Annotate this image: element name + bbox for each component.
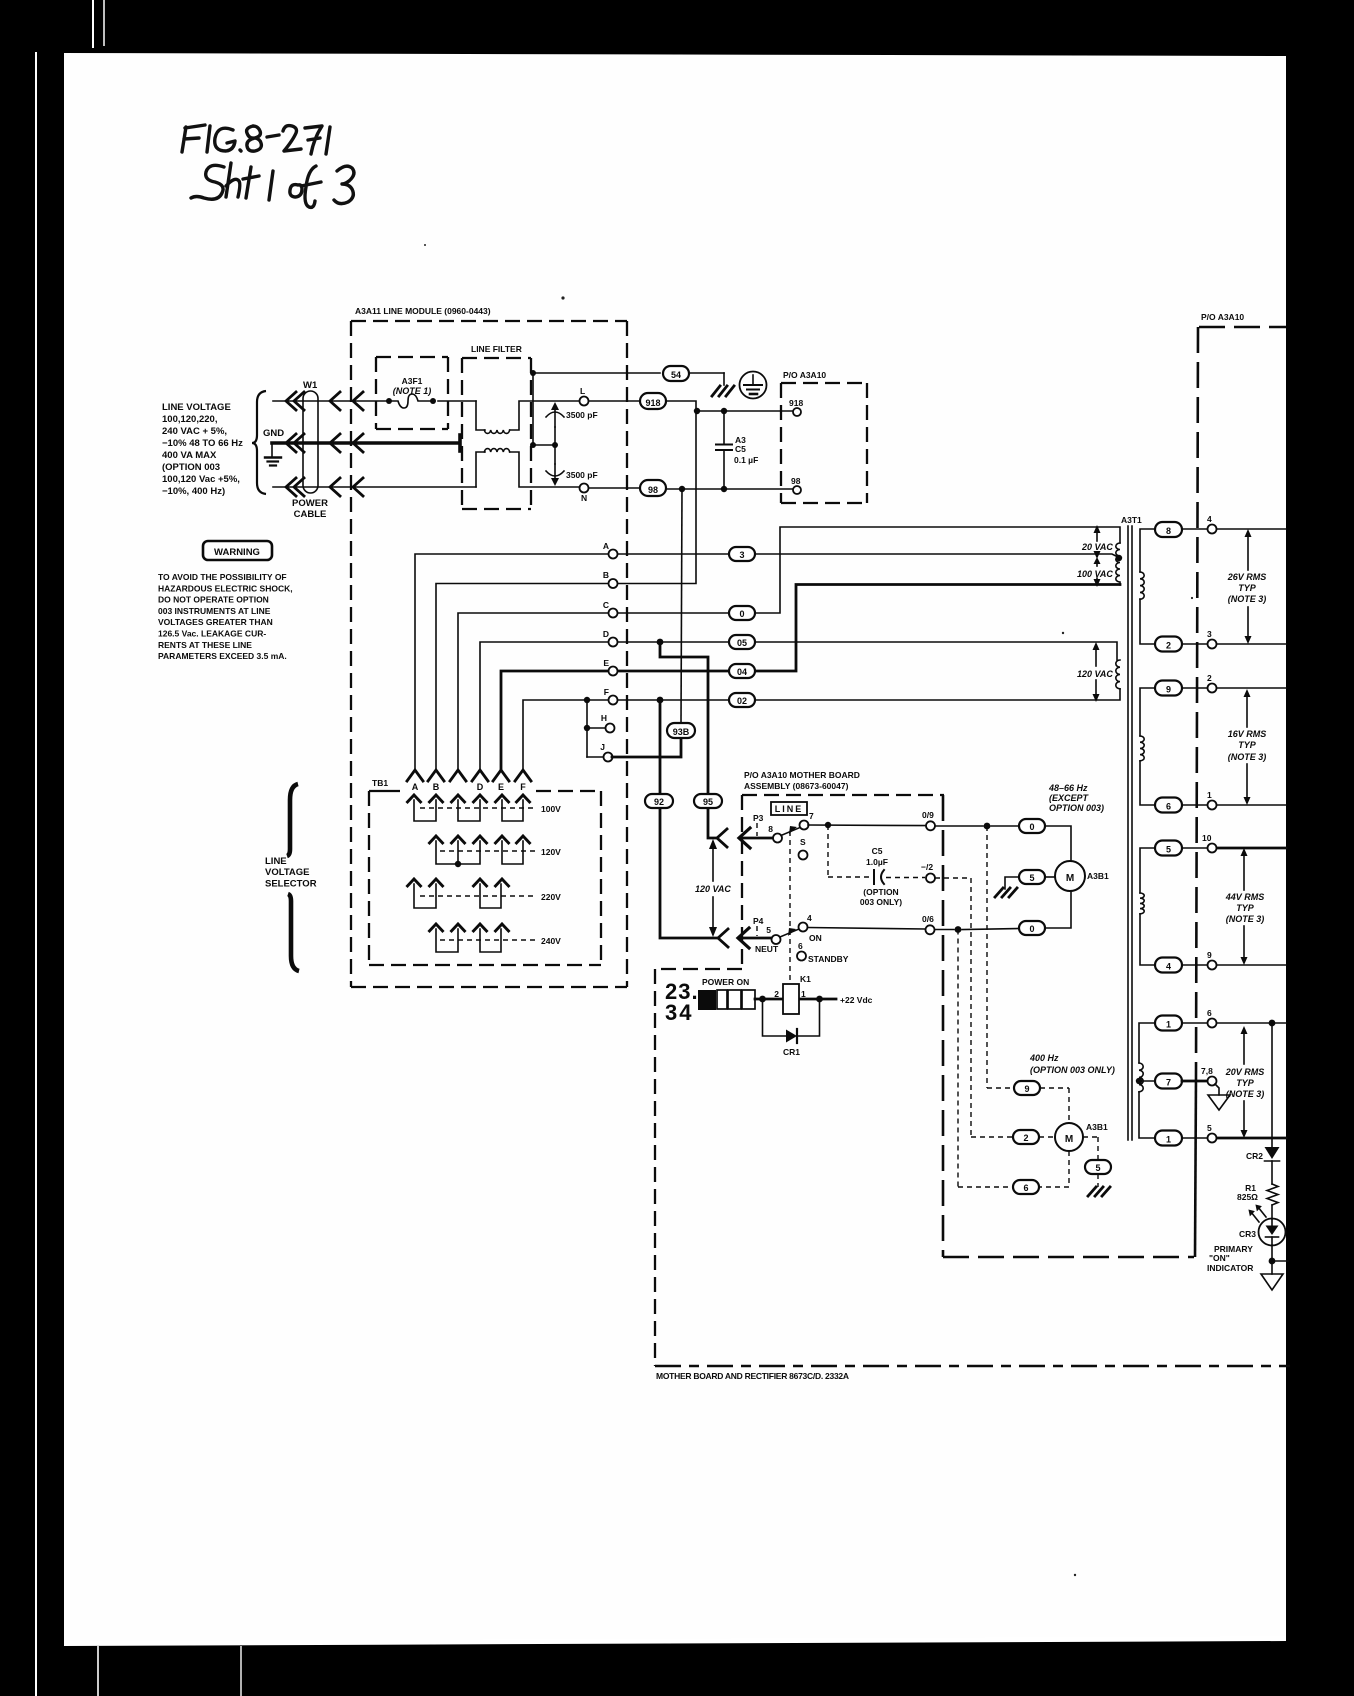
svg-text:NEUT: NEUT <box>755 944 779 954</box>
dashed -/2 drop to 400Hz motor <box>935 878 1013 1137</box>
svg-text:A3B1: A3B1 <box>1086 1122 1108 1132</box>
oval 5 row <box>1155 841 1182 856</box>
svg-text:1.0µF: 1.0µF <box>866 857 888 867</box>
secondary winding 9-6 <box>1140 688 1155 805</box>
svg-text:TYP: TYP <box>1238 583 1257 593</box>
44V arrow <box>1243 853 1245 959</box>
48-66 Hz note <box>1048 783 1104 813</box>
svg-text:126.5 Vac. LEAKAGE CUR-: 126.5 Vac. LEAKAGE CUR- <box>158 629 266 639</box>
protective earth circle symbol <box>740 372 767 399</box>
svg-text:M: M <box>1066 873 1074 884</box>
svg-text:100V: 100V <box>541 804 561 814</box>
svg-text:5: 5 <box>1207 1123 1212 1133</box>
wire switch to K1 <box>755 998 836 1001</box>
svg-text:1: 1 <box>1166 1135 1171 1145</box>
svg-text:LINE FILTER: LINE FILTER <box>471 344 522 354</box>
svg-text:C5: C5 <box>735 444 746 454</box>
svg-text:TB1: TB1 <box>372 778 388 788</box>
svg-text:H: H <box>601 713 607 723</box>
400 Hz note <box>1029 1053 1115 1075</box>
oval 93B <box>667 723 695 738</box>
oval 6 row <box>1155 798 1182 813</box>
220V jumpers <box>414 884 501 908</box>
oval 5 <box>1019 870 1045 884</box>
26V RMS note <box>1227 572 1267 604</box>
chassis ground 48-66Hz <box>995 888 1017 897</box>
dashed 0/9 drop to 400Hz motor <box>987 826 1013 1088</box>
220V leader <box>420 895 536 897</box>
oval 02 <box>729 693 755 707</box>
line voltage selector label <box>265 856 317 890</box>
WARNING box <box>203 541 272 560</box>
svg-text:6: 6 <box>1023 1183 1028 1193</box>
switch S1 contact 8 <box>773 834 782 843</box>
svg-text:HAZARDOUS ELECTRIC SHOCK,: HAZARDOUS ELECTRIC SHOCK, <box>158 583 293 593</box>
oval 2 <box>1013 1130 1039 1144</box>
svg-text:E: E <box>498 782 504 792</box>
warning paragraph <box>158 572 293 661</box>
svg-text:MOTHER BOARD AND RECTIFIER 86: MOTHER BOARD AND RECTIFIER 8673C/D. 2332… <box>656 1371 849 1381</box>
svg-text:PARAMETERS EXCEED 3.5 mA.: PARAMETERS EXCEED 3.5 mA. <box>158 651 287 661</box>
oval 1 row <box>1155 1016 1182 1031</box>
svg-text:CR2: CR2 <box>1246 1151 1263 1161</box>
svg-text:LINE: LINE <box>265 856 287 867</box>
handwritten figure title FIG.8-271 Sht 1 of 3 <box>182 125 354 207</box>
svg-text:+22 Vdc: +22 Vdc <box>840 995 873 1005</box>
switch S1 contact 7 <box>800 821 809 830</box>
svg-text:44V RMS: 44V RMS <box>1225 892 1265 902</box>
wire row E <box>501 585 1120 770</box>
svg-text:05: 05 <box>737 638 747 648</box>
20V RMS note <box>1225 1067 1265 1099</box>
svg-text:2: 2 <box>1023 1133 1028 1143</box>
wire 54 row and oval 54 <box>663 366 689 381</box>
relay K1 coil <box>783 984 799 1014</box>
svg-text:GND: GND <box>263 428 284 439</box>
svg-text:D: D <box>477 782 484 792</box>
240V jumpers <box>436 929 501 952</box>
oval 5 400Hz <box>1085 1160 1111 1174</box>
120V jumpers <box>436 841 523 864</box>
oval 2 row <box>1155 637 1182 652</box>
wire F H J jumper <box>587 700 606 757</box>
fan motor A3B1 <box>1055 861 1085 891</box>
16V arrow <box>1246 694 1248 799</box>
svg-text:M: M <box>1065 1134 1073 1145</box>
svg-text:98: 98 <box>648 485 658 495</box>
svg-text:ON: ON <box>809 933 822 943</box>
pushbutton switch <box>698 990 755 1010</box>
120V leader <box>440 850 536 852</box>
selector brace <box>287 784 298 856</box>
svg-text:D: D <box>603 629 609 639</box>
P3 connector chevrons <box>717 828 773 848</box>
svg-text:J: J <box>600 742 605 752</box>
svg-text:POWER: POWER <box>292 498 328 509</box>
A3A11 line module dashed box <box>351 321 627 987</box>
svg-text:5: 5 <box>766 925 771 935</box>
secondary winding 8-2 <box>1140 529 1155 644</box>
svg-text:5: 5 <box>1095 1163 1100 1173</box>
dashed 9 to motor <box>1040 1088 1069 1123</box>
oval 92 <box>645 794 673 808</box>
svg-text:1: 1 <box>1207 790 1212 800</box>
oval 98 <box>640 480 666 496</box>
svg-text:CR1: CR1 <box>783 1047 800 1057</box>
feedthrough capacitor 3500pF top <box>546 402 564 464</box>
svg-text:54: 54 <box>671 370 681 380</box>
P/O A3A10 connector dashed box <box>781 383 867 503</box>
svg-text:400 Hz: 400 Hz <box>1029 1053 1059 1063</box>
wire row F <box>523 689 1120 769</box>
filter case wire to 54 <box>533 373 660 445</box>
TB1 terminal box dashed <box>369 791 601 965</box>
fan motor A3B1 400Hz <box>1055 1123 1083 1151</box>
svg-text:A3F1: A3F1 <box>402 376 423 386</box>
dashed motor to oval 5 to ground <box>1083 1137 1098 1187</box>
node C <box>609 609 618 618</box>
oval 04 <box>729 664 755 678</box>
svg-text:93B: 93B <box>673 727 690 737</box>
oval 918 <box>640 393 666 409</box>
P4 connector chevrons <box>718 928 772 948</box>
mechanical link dashed <box>789 831 791 984</box>
svg-text:CABLE: CABLE <box>294 509 327 520</box>
chassis ground symbol <box>712 386 734 396</box>
svg-text:B: B <box>603 570 609 580</box>
100V row arrows <box>407 795 531 803</box>
svg-text:100 VAC: 100 VAC <box>1077 569 1113 579</box>
svg-text:34: 34 <box>665 1000 693 1025</box>
svg-text:C: C <box>603 600 609 610</box>
SECTION: right column <box>1155 514 1288 1290</box>
switch S2 contact 5 <box>772 935 781 944</box>
wire N row <box>273 452 793 489</box>
svg-text:918: 918 <box>789 398 803 408</box>
svg-text:(NOTE 3): (NOTE 3) <box>1228 594 1267 604</box>
oval 7 row <box>1155 1074 1182 1089</box>
svg-text:48–66 Hz: 48–66 Hz <box>1048 783 1088 793</box>
svg-text:P/O A3A10 MOTHER BOARD: P/O A3A10 MOTHER BOARD <box>744 770 860 780</box>
SECTION: left labels <box>158 380 328 971</box>
dashed 2 to motor <box>1039 1136 1055 1138</box>
svg-text:0: 0 <box>739 609 744 619</box>
svg-text:STANDBY: STANDBY <box>808 954 849 964</box>
filter choke winding L <box>484 430 509 433</box>
mother board border bottom <box>943 1256 1194 1259</box>
node A <box>609 550 618 559</box>
120V row arrows <box>429 836 531 844</box>
svg-text:02: 02 <box>737 696 747 706</box>
line filter dashed box <box>462 358 531 509</box>
filter choke winding N <box>484 449 509 452</box>
svg-text:5: 5 <box>1166 845 1171 855</box>
node D <box>609 638 618 647</box>
44V RMS note <box>1225 892 1265 924</box>
svg-text:7: 7 <box>809 811 814 821</box>
switch S1 blade <box>781 828 800 836</box>
svg-text:TYP: TYP <box>1238 740 1257 750</box>
svg-text:(OPTION 003 ONLY): (OPTION 003 ONLY) <box>1030 1065 1115 1075</box>
wire row B <box>436 411 696 769</box>
svg-text:100,120,220,: 100,120,220, <box>162 414 217 425</box>
SECTION: motors <box>995 783 1115 1196</box>
bottom region border dash-dot <box>655 1365 1290 1368</box>
svg-text:3: 3 <box>739 550 744 560</box>
svg-text:S: S <box>800 837 806 847</box>
svg-text:LINE: LINE <box>775 804 804 814</box>
svg-text:16V RMS: 16V RMS <box>1228 729 1267 739</box>
svg-text:C5: C5 <box>872 846 883 856</box>
220V row arrows <box>407 879 510 887</box>
primary winding 2 <box>1116 660 1120 689</box>
svg-text:SELECTOR: SELECTOR <box>265 879 317 890</box>
LED arrows <box>1251 1207 1266 1222</box>
svg-text:26V RMS: 26V RMS <box>1227 572 1267 582</box>
oval 9 <box>1014 1081 1040 1095</box>
L terminal <box>580 397 589 406</box>
svg-text:220V: 220V <box>541 892 561 902</box>
120 VAC measure arrow <box>712 847 714 929</box>
svg-text:003 ONLY): 003 ONLY) <box>860 897 902 907</box>
oval 05 <box>729 635 755 649</box>
svg-text:P/O A3A10: P/O A3A10 <box>1201 312 1244 322</box>
wire ground to oval 5 to motor <box>1005 877 1055 889</box>
svg-text:−10% 48 TO 66 Hz: −10% 48 TO 66 Hz <box>162 438 243 449</box>
dashed 0/6 drop to 400Hz motor <box>958 930 1013 1188</box>
svg-text:A: A <box>412 782 419 792</box>
svg-text:F: F <box>520 782 526 792</box>
cable connector chevrons row N <box>286 478 363 496</box>
oval 1 bottom row <box>1155 1131 1182 1146</box>
svg-text:A3B1: A3B1 <box>1087 871 1109 881</box>
svg-text:6: 6 <box>1207 1008 1212 1018</box>
A3F1 dashed box <box>376 357 448 429</box>
svg-text:918: 918 <box>645 398 660 408</box>
wire 4 to 0/6 <box>808 891 1071 930</box>
oval 0 <box>729 606 755 620</box>
power cable W1 capsule <box>303 391 318 493</box>
240V row arrows <box>429 924 510 932</box>
svg-text:003 INSTRUMENTS AT LINE: 003 INSTRUMENTS AT LINE <box>158 606 271 616</box>
svg-text:W1: W1 <box>303 380 318 391</box>
SECTION: mother board <box>655 312 1290 1381</box>
SECTION: cable and line module <box>272 306 867 987</box>
node H <box>606 724 615 733</box>
svg-text:A: A <box>603 541 609 551</box>
svg-text:7,8: 7,8 <box>1201 1066 1213 1076</box>
svg-text:(EXCEPT: (EXCEPT <box>1049 793 1090 803</box>
svg-text:0/6: 0/6 <box>922 914 934 924</box>
svg-text:2: 2 <box>1207 673 1212 683</box>
svg-text:4: 4 <box>807 913 812 923</box>
cable connector chevrons row GND <box>286 434 363 452</box>
svg-text:8: 8 <box>768 824 773 834</box>
LED CR3 <box>1259 1219 1286 1246</box>
secondary winding 1-7-1 <box>1139 1023 1155 1138</box>
wire D to 95 feed <box>660 642 717 838</box>
svg-text:DO NOT OPERATE OPTION: DO NOT OPERATE OPTION <box>158 595 269 605</box>
svg-text:9: 9 <box>1166 685 1171 695</box>
svg-text:F: F <box>604 687 609 697</box>
feedthrough capacitor 3500pF bottom <box>546 464 564 486</box>
svg-text:20 VAC: 20 VAC <box>1081 542 1113 552</box>
svg-text:1: 1 <box>801 989 806 999</box>
oval 9 row <box>1155 681 1182 696</box>
SECTION: TB1 selector <box>369 770 601 965</box>
svg-text:INDICATOR: INDICATOR <box>1207 1263 1253 1273</box>
svg-text:95: 95 <box>703 797 713 807</box>
wire 7 to 0/9 <box>808 825 1071 861</box>
svg-text:5: 5 <box>1029 873 1034 883</box>
node J <box>604 753 613 762</box>
junction dots N row <box>679 486 685 492</box>
svg-text:0/9: 0/9 <box>922 810 934 820</box>
resistor R1 825 ohm <box>1267 1184 1278 1205</box>
svg-text:−10%, 400 Hz): −10%, 400 Hz) <box>162 486 225 497</box>
node E <box>609 667 618 676</box>
svg-text:WARNING: WARNING <box>214 547 260 558</box>
wire row A <box>415 554 1119 769</box>
svg-text:TYP: TYP <box>1236 1078 1255 1088</box>
dashed motor bottom to oval 6 <box>1039 1151 1069 1187</box>
svg-text:120V: 120V <box>541 847 561 857</box>
svg-text:POWER ON: POWER ON <box>702 977 749 987</box>
SECTION: AF rows <box>415 411 1120 938</box>
earth ground symbol <box>265 443 281 466</box>
svg-text:8: 8 <box>1166 526 1171 536</box>
svg-text:LINE VOLTAGE: LINE VOLTAGE <box>162 402 231 413</box>
svg-text:6: 6 <box>798 941 803 951</box>
svg-text:A3T1: A3T1 <box>1121 515 1142 525</box>
26V arrow <box>1247 534 1249 638</box>
svg-text:240 VAC + 5%,: 240 VAC + 5%, <box>162 426 227 437</box>
240V leader <box>440 939 536 941</box>
cable connector chevrons row L <box>286 392 363 410</box>
svg-text:(OPTION: (OPTION <box>863 887 898 897</box>
svg-text:A3A11 LINE MODULE (0960-0443): A3A11 LINE MODULE (0960-0443) <box>355 306 491 316</box>
svg-text:(NOTE 1): (NOTE 1) <box>393 386 432 396</box>
capacitor C5 symbol <box>874 870 884 884</box>
svg-text:9: 9 <box>1207 950 1212 960</box>
svg-text:3500 pF: 3500 pF <box>566 410 598 420</box>
svg-text:VOLTAGE: VOLTAGE <box>265 867 310 878</box>
oval 8 row <box>1155 522 1182 537</box>
svg-text:0: 0 <box>1029 822 1034 832</box>
svg-text:400 VA MAX: 400 VA MAX <box>162 450 217 461</box>
svg-text:825Ω: 825Ω <box>1237 1192 1258 1202</box>
mother board border right <box>942 795 945 1257</box>
secondary winding 5-4 <box>1140 848 1155 965</box>
100V jumpers <box>414 800 523 821</box>
svg-text:E: E <box>603 658 609 668</box>
diode CR1 <box>763 999 820 1043</box>
svg-text:3: 3 <box>1207 629 1212 639</box>
oval 95 <box>694 794 722 808</box>
wire GND row <box>272 435 460 451</box>
node F <box>609 696 618 705</box>
svg-text:10: 10 <box>1202 833 1212 843</box>
svg-text:N: N <box>581 493 587 503</box>
primary winding 1 <box>1116 543 1120 585</box>
primary 1 tap dot <box>1116 555 1122 561</box>
svg-text:L: L <box>580 386 585 396</box>
svg-text:98: 98 <box>791 476 801 486</box>
svg-text:B: B <box>433 782 440 792</box>
svg-text:92: 92 <box>654 797 664 807</box>
fuse A3F1 <box>386 394 436 408</box>
mother board dashed border <box>655 795 944 1366</box>
svg-text:240V: 240V <box>541 936 561 946</box>
svg-text:3500 pF: 3500 pF <box>566 470 598 480</box>
svg-text:RENTS AT THESE LINE: RENTS AT THESE LINE <box>158 640 252 650</box>
wire L row <box>273 401 793 430</box>
oval 4 row <box>1155 958 1182 973</box>
N terminal <box>580 484 589 493</box>
oval 0 bottom <box>1019 921 1045 935</box>
pin labels <box>412 782 527 792</box>
svg-text:K1: K1 <box>800 974 811 984</box>
CR2 branch from 6 row <box>1269 1020 1276 1027</box>
node B <box>609 579 618 588</box>
svg-text:2: 2 <box>774 989 779 999</box>
svg-text:−/2: −/2 <box>921 862 933 872</box>
svg-text:CR3: CR3 <box>1239 1229 1256 1239</box>
wire F to 92 feed <box>660 700 717 938</box>
svg-text:P4: P4 <box>753 916 764 926</box>
svg-text:TO AVOID THE POSSIBILITY OF: TO AVOID THE POSSIBILITY OF <box>158 572 287 582</box>
svg-text:0.1 µF: 0.1 µF <box>734 455 758 465</box>
wire J to 93B <box>612 737 681 757</box>
oval 3 <box>729 547 755 561</box>
transformer core <box>1128 526 1132 1140</box>
wire row D <box>480 642 1117 769</box>
wire CR3 to common <box>1271 1245 1273 1274</box>
100V leader <box>420 807 536 809</box>
svg-text:TYP: TYP <box>1236 903 1255 913</box>
svg-text:0: 0 <box>1029 924 1034 934</box>
svg-text:2: 2 <box>1166 641 1171 651</box>
diode CR2 <box>1265 1147 1280 1159</box>
svg-text:20V RMS: 20V RMS <box>1225 1067 1265 1077</box>
svg-text:(OPTION 003: (OPTION 003 <box>162 462 220 473</box>
line voltage note text <box>162 402 243 497</box>
20V arrow <box>1243 1031 1245 1132</box>
svg-text:04: 04 <box>737 667 747 677</box>
svg-text:(NOTE 3): (NOTE 3) <box>1228 752 1267 762</box>
connector pins above TB1 <box>407 770 531 781</box>
svg-text:1: 1 <box>1166 1020 1171 1030</box>
junction dots L row <box>694 408 700 414</box>
oval 0 top <box>1019 819 1045 833</box>
capacitor C5 dashed branch <box>828 825 925 878</box>
svg-text:(NOTE 3): (NOTE 3) <box>1226 914 1265 924</box>
svg-text:OPTION 003): OPTION 003) <box>1049 803 1104 813</box>
svg-text:P/O A3A10: P/O A3A10 <box>783 370 826 380</box>
common triangle 7,8 <box>1208 1084 1230 1110</box>
cable brace <box>252 391 266 494</box>
oval 6 <box>1013 1180 1039 1194</box>
switch S2 contact 4 <box>799 923 808 932</box>
LINE switch box <box>771 802 807 815</box>
svg-text:6: 6 <box>1166 802 1171 812</box>
svg-text:"ON": "ON" <box>1209 1253 1230 1263</box>
svg-text:9: 9 <box>1024 1084 1029 1094</box>
svg-text:VOLTAGES GREATER THAN: VOLTAGES GREATER THAN <box>158 617 273 627</box>
svg-text:ASSEMBLY (08673-60047): ASSEMBLY (08673-60047) <box>744 781 849 791</box>
svg-text:4: 4 <box>1166 962 1171 972</box>
svg-text:7: 7 <box>1166 1078 1171 1088</box>
